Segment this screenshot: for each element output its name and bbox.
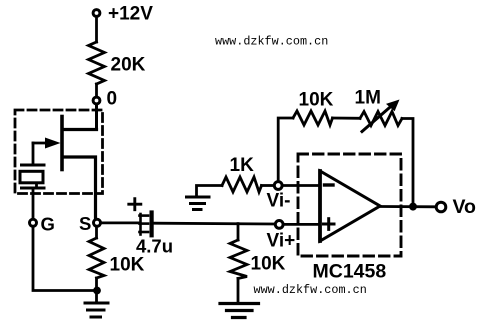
wire Vi+ to op-amp — [284, 223, 320, 226]
svg-text:1M: 1M — [355, 88, 381, 109]
resistor 10K (source) — [89, 238, 145, 278]
resistor 10K (Vi+ bias) — [230, 240, 286, 279]
node S — [79, 213, 101, 234]
svg-text:1K: 1K — [230, 155, 255, 176]
wire capacitor to Vi+ — [154, 222, 275, 226]
wire between feedback resistors — [333, 117, 361, 120]
terminal +12V — [93, 4, 153, 25]
svg-text:4.7u: 4.7u — [136, 236, 173, 257]
terminal Vo — [436, 196, 476, 218]
wire 20K to node 0 — [95, 84, 98, 96]
wire S to capacitor — [102, 221, 139, 224]
wire node 0 down to drain — [95, 105, 98, 129]
node Vi+ — [267, 221, 296, 252]
Q1 gate wire and arrow — [33, 138, 61, 164]
capacitor C1 4.7u polarity + — [129, 199, 141, 210]
svg-text:+12V: +12V — [108, 4, 153, 25]
svg-text:10K: 10K — [251, 254, 286, 275]
wire element to G — [32, 188, 35, 218]
potentiometer 1M — [355, 88, 403, 132]
op-amp minus mark — [325, 183, 334, 186]
wire tee down to R 10K (Vi+) — [237, 224, 240, 240]
wire R to ground — [95, 278, 98, 302]
svg-text:Vi+: Vi+ — [267, 231, 296, 252]
svg-text:Vo: Vo — [453, 196, 477, 218]
wire 1M to output — [402, 119, 413, 203]
svg-text:20K: 20K — [111, 55, 146, 76]
wire op-amp output — [380, 205, 436, 208]
resistor 10K (feedback) — [293, 90, 334, 126]
electret element stub — [35, 183, 38, 188]
svg-text:MC1458: MC1458 — [313, 261, 387, 283]
node Vi- — [267, 182, 291, 212]
svg-text:10K: 10K — [110, 255, 145, 276]
wire Vi- up to feedback — [278, 118, 293, 181]
op-amp plus mark — [324, 219, 335, 230]
wire G down — [33, 228, 93, 291]
svg-text:www.dzkfw.com.cn: www.dzkfw.com.cn — [254, 283, 367, 297]
electret element body — [20, 171, 43, 183]
terminal G — [30, 214, 55, 235]
wire Vi- to op-amp — [283, 184, 320, 187]
ground (source divider) — [85, 303, 108, 317]
svg-text:Vi-: Vi- — [267, 191, 291, 212]
junction feedback/output — [409, 203, 417, 211]
op-amp dashed box — [298, 154, 401, 256]
Q1 source lead — [63, 157, 96, 218]
transistor Q1 JFET channel — [60, 117, 64, 170]
junction G/ground — [93, 287, 101, 295]
Q1 drain lead — [63, 128, 97, 131]
wire S to R 10K — [95, 228, 98, 238]
wire to ground — [237, 279, 240, 303]
resistor 1K — [222, 155, 262, 192]
electret element bottom plate — [22, 187, 45, 190]
svg-text:S: S — [79, 213, 91, 234]
resistor 20K — [89, 42, 146, 84]
ground (Vi+ bias) — [220, 304, 259, 318]
mic module dashed box — [15, 110, 103, 194]
node 0 — [93, 89, 117, 110]
svg-text:G: G — [41, 214, 55, 235]
op-amp U1 triangle — [320, 171, 380, 241]
capacitor C1 plates — [140, 213, 152, 236]
svg-text:www.dzkfw.com.cn: www.dzkfw.com.cn — [215, 34, 328, 48]
svg-text:10K: 10K — [299, 90, 334, 111]
svg-text:0: 0 — [107, 89, 118, 110]
wire +12V to R 20K — [95, 18, 98, 42]
wire 1K to Vi- — [262, 184, 274, 187]
ground (1K input) — [187, 186, 223, 210]
electret element top plate — [22, 164, 45, 167]
